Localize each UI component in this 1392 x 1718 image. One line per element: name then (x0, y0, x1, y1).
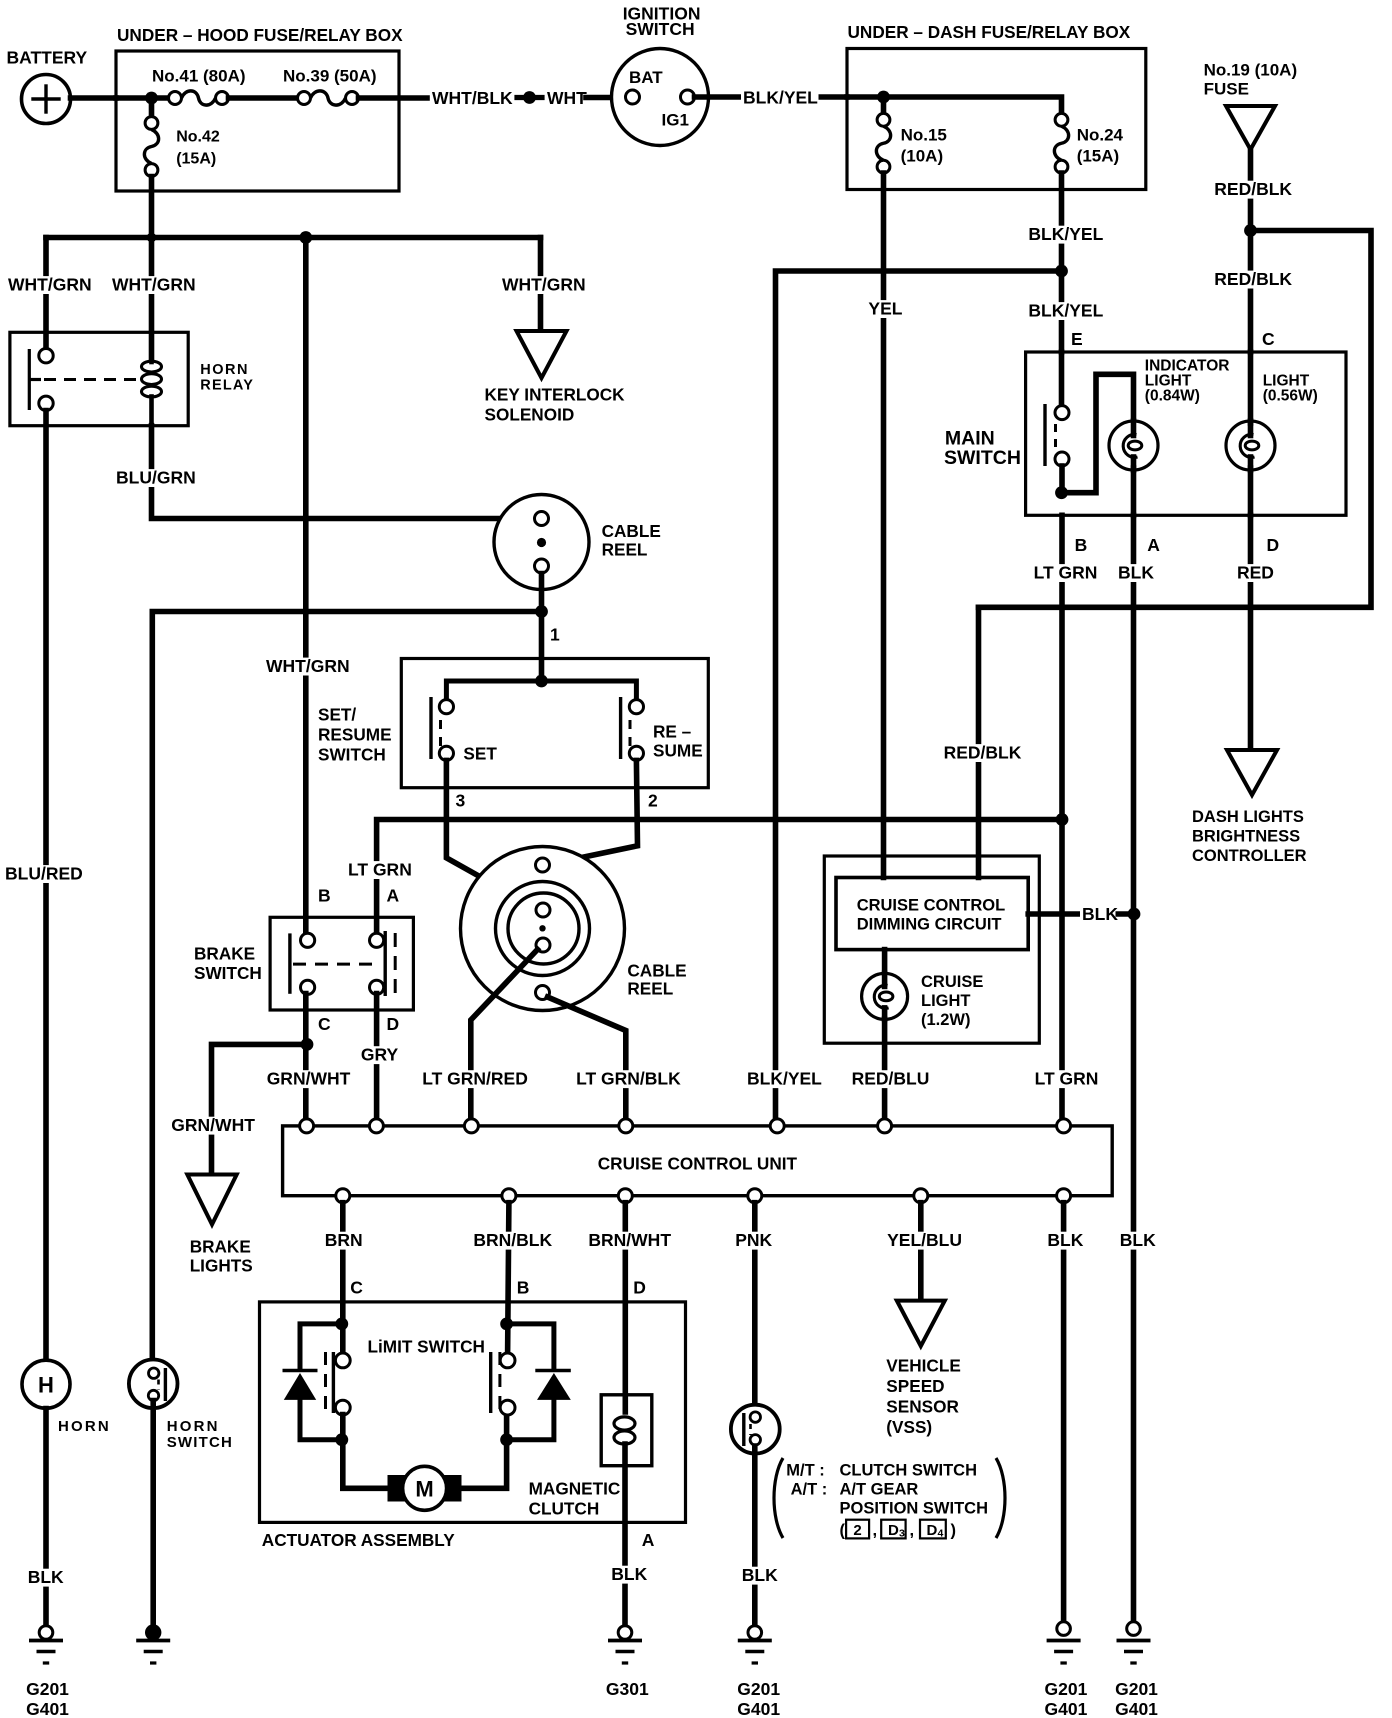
svg-text:G201: G201 (26, 1679, 69, 1699)
wire brake D GRY down (374, 994, 380, 1119)
label BLK clutch (609, 1564, 647, 1584)
svg-text:G401: G401 (1115, 1699, 1158, 1718)
svg-text:3: 3 (456, 791, 466, 811)
label LT GRN brake (346, 860, 413, 880)
terminal BAT (626, 68, 664, 104)
wire WHT to ignition BAT terminal (586, 95, 626, 101)
svg-text:4: 4 (938, 1528, 944, 1540)
magnetic clutch (529, 1395, 652, 1519)
wire E into main switch (1059, 352, 1065, 406)
label RED/BLK upper (1212, 179, 1292, 199)
wire horn down (43, 1409, 49, 1627)
label RED/BLK dimming (942, 743, 1022, 763)
svg-text:SWITCH: SWITCH (194, 963, 262, 983)
wire BRN to actuator (340, 1203, 346, 1354)
svg-text:SWITCH: SWITCH (944, 447, 1021, 469)
label C actuator (350, 1278, 363, 1298)
wire set terminal 3 (446, 760, 536, 908)
svg-text:(10A): (10A) (901, 147, 944, 166)
svg-text:SET: SET (463, 744, 497, 764)
junction limit switch C top (335, 1318, 348, 1331)
label 2 (648, 791, 658, 811)
svg-text:WHT/GRN: WHT/GRN (502, 275, 586, 295)
svg-text:BLK: BLK (28, 1567, 64, 1587)
key interlock solenoid (485, 331, 626, 425)
wire fuse42 to bus (149, 177, 155, 238)
wire dimming BLK (1028, 911, 1134, 917)
svg-text:D: D (1267, 535, 1280, 555)
junction LT GRN branch (1056, 813, 1069, 826)
label GRN/WHT center (265, 1069, 351, 1089)
label C brake (318, 1014, 331, 1034)
svg-text:RESUME: RESUME (318, 725, 392, 745)
main switch box (944, 352, 1346, 515)
wire fuse24 down to main switch E (1059, 173, 1065, 352)
fuse No.15 (10A) (876, 113, 947, 173)
svg-text:LT GRN/BLK: LT GRN/BLK (576, 1069, 681, 1089)
wire cruise light down to CCU (882, 1019, 888, 1119)
wire 1 to set/resume (539, 612, 545, 682)
wire WHT/GRN left drop (43, 238, 49, 349)
svg-text:CRUISE CONTROL: CRUISE CONTROL (857, 897, 1006, 915)
diode D2 (507, 1324, 571, 1440)
svg-text:LIGHT: LIGHT (921, 992, 971, 1010)
svg-text:G401: G401 (737, 1699, 780, 1718)
svg-text:IG1: IG1 (662, 111, 689, 130)
junction limit switch B top (500, 1318, 513, 1331)
indicator light bulb (1109, 358, 1229, 471)
ground clutch switch G201 G401 (737, 1626, 780, 1718)
set/resume switch box (318, 659, 708, 788)
svg-text:(: ( (840, 1522, 846, 1540)
label BLK/YEL upper (1026, 224, 1104, 244)
label BLU/GRN (114, 468, 196, 488)
brake switch linkage dashed (293, 963, 381, 966)
svg-text:CONTROLLER: CONTROLLER (1192, 847, 1307, 865)
label RED/BLK lower (1212, 269, 1292, 289)
brake switch right contact (370, 931, 396, 996)
junction cable reel 1 (535, 605, 548, 618)
svg-text:,: , (873, 1522, 878, 1540)
svg-text:RED/BLK: RED/BLK (944, 743, 1022, 763)
CCU bottom connectors (336, 1189, 1071, 1203)
junction under-dash feed (877, 91, 890, 104)
svg-text:RE –: RE – (653, 722, 692, 742)
label 1 (550, 625, 560, 645)
svg-text:GRN/WHT: GRN/WHT (171, 1115, 255, 1135)
resume switch contacts (621, 697, 703, 761)
svg-text:M/T :: M/T : (786, 1462, 825, 1480)
wire brake C down (303, 994, 309, 1119)
wire horn switch down (150, 1401, 156, 1627)
svg-text:No.41 (80A): No.41 (80A) (152, 67, 246, 86)
svg-text:M: M (415, 1477, 433, 1502)
svg-text:): ) (951, 1522, 957, 1540)
svg-text:,: , (910, 1522, 915, 1540)
svg-text:D: D (387, 1014, 400, 1034)
set switch contacts (431, 697, 497, 764)
label C main switch (1262, 329, 1275, 349)
label BLK clutch switch (740, 1565, 778, 1585)
fuse No.19 (10A) connector (1204, 61, 1298, 150)
svg-text:G301: G301 (606, 1679, 649, 1699)
svg-text:C: C (1262, 329, 1275, 349)
svg-text:SOLENOID: SOLENOID (485, 405, 575, 425)
svg-text:BRN/BLK: BRN/BLK (473, 1230, 552, 1250)
wire BRN/BLK to actuator (508, 1203, 509, 1354)
wire main switch lower contact to junction (1059, 466, 1065, 493)
fuse No.24 (15A) (1054, 113, 1123, 173)
junction BLK/YEL (1055, 265, 1068, 278)
main switch contacts (1045, 404, 1069, 466)
svg-text:LiMIT SWITCH: LiMIT SWITCH (368, 1337, 485, 1357)
wire YEL/BLU to VSS (918, 1203, 924, 1300)
wire between fuse 41 and 39 (229, 95, 298, 101)
svg-text:3: 3 (899, 1528, 905, 1540)
svg-text:WHT/BLK: WHT/BLK (432, 88, 513, 108)
junction set/resume bus (535, 675, 548, 688)
label E main switch (1071, 329, 1083, 349)
brake switch left contact (290, 933, 315, 994)
label BRN (323, 1230, 363, 1250)
svg-text:BAT: BAT (629, 68, 663, 87)
ignition switch (612, 4, 709, 146)
brake switch box (194, 917, 413, 1010)
svg-text:MAGNETIC: MAGNETIC (529, 1479, 621, 1499)
label GRN/WHT left (169, 1115, 255, 1135)
svg-text:LT GRN: LT GRN (1035, 1069, 1099, 1089)
svg-text:GRY: GRY (361, 1045, 399, 1065)
svg-text:No.42: No.42 (176, 129, 220, 146)
label A clutch (642, 1530, 655, 1550)
label WHT/GRN coil (110, 275, 196, 295)
wire indicator bulb down (1131, 468, 1137, 515)
junction RED/BLK (1244, 224, 1257, 237)
dimming circuit outer box (824, 856, 1039, 1043)
wire dimming to cruise light (882, 950, 888, 974)
svg-text:POSITION SWITCH: POSITION SWITCH (840, 1500, 989, 1518)
wire RED/BLK down to dimming circuit (976, 607, 982, 877)
wire C contact to motor (343, 1415, 392, 1489)
svg-text:B: B (318, 886, 331, 906)
cable reel upper (494, 495, 661, 590)
wire A BLK down to ground (1131, 515, 1137, 1626)
label BLK right (1118, 1230, 1156, 1250)
label BLK/YEL lower (1026, 301, 1104, 321)
svg-text:RELAY: RELAY (200, 378, 254, 394)
svg-text:GRN/WHT: GRN/WHT (267, 1069, 351, 1089)
wire WHT/GRN coil drop (149, 238, 155, 360)
clutch switch (731, 1405, 780, 1454)
label 3 (456, 791, 466, 811)
svg-text:BRIGHTNESS: BRIGHTNESS (1192, 828, 1300, 846)
svg-text:SPEED: SPEED (886, 1376, 944, 1396)
svg-text:1: 1 (550, 625, 560, 645)
limit switch B contacts (491, 1352, 515, 1415)
horn relay box (10, 332, 254, 425)
svg-text:BLU/RED: BLU/RED (5, 864, 83, 884)
label PNK (733, 1230, 772, 1250)
label BLU/RED (3, 864, 83, 884)
junction bus WHT/GRN (299, 231, 312, 244)
wire LT GRN long branch (377, 820, 1062, 934)
cruise light bulb (862, 973, 984, 1029)
label LiMIT SWITCH (368, 1337, 485, 1357)
wire resume terminal 2 (550, 760, 638, 864)
wire cable reel down to junction (539, 574, 545, 612)
svg-text:A: A (387, 886, 400, 906)
svg-text:No.24: No.24 (1077, 126, 1124, 145)
label BLK horn (26, 1567, 64, 1587)
junction BLK dimming (1128, 908, 1141, 921)
svg-text:WHT/GRN: WHT/GRN (266, 656, 350, 676)
clutch switch note (774, 1458, 1005, 1540)
svg-text:(15A): (15A) (1077, 147, 1120, 166)
label BLK/YEL ccu (745, 1069, 823, 1089)
svg-text:HORN: HORN (58, 1418, 111, 1435)
svg-text:A: A (1147, 535, 1160, 555)
label B actuator (517, 1278, 530, 1298)
wire fuse42 tap (149, 98, 155, 117)
label LT GRN/BLK (574, 1069, 683, 1089)
svg-text:(0.84W): (0.84W) (1145, 387, 1200, 404)
wire WHT/GRN key interlock drop (538, 238, 544, 330)
horn relay contacts (29, 349, 53, 411)
ground main switch BLK G201 G401 (1115, 1622, 1158, 1718)
svg-text:BLK/YEL: BLK/YEL (1028, 224, 1103, 244)
svg-text:B: B (517, 1278, 530, 1298)
svg-text:BLK: BLK (1082, 904, 1118, 924)
svg-text:(VSS): (VSS) (886, 1417, 932, 1437)
label RED main switch D (1235, 563, 1274, 583)
ground CCU BLK G201 G401 (1045, 1622, 1088, 1718)
label WHT (547, 88, 587, 108)
junction battery feed (145, 92, 158, 105)
svg-text:BRN: BRN (325, 1230, 363, 1250)
svg-text:(1.2W): (1.2W) (921, 1011, 971, 1029)
svg-text:WHT/GRN: WHT/GRN (8, 275, 92, 295)
svg-text:BATTERY: BATTERY (7, 48, 88, 68)
svg-text:REEL: REEL (602, 540, 648, 560)
label WHT/GRN center (264, 656, 350, 676)
svg-text:FUSE: FUSE (1204, 80, 1249, 99)
fuse No.42 (15A) (144, 117, 219, 177)
svg-text:KEY INTERLOCK: KEY INTERLOCK (485, 385, 626, 405)
actuator assembly box (260, 1302, 686, 1550)
motor M (388, 1466, 462, 1510)
label BLK main switch A (1116, 563, 1154, 583)
battery B1 (7, 48, 88, 124)
label RED/BLU (850, 1069, 930, 1089)
label LT GRN/RED (420, 1069, 529, 1089)
diode D1 (283, 1324, 342, 1440)
wire clutch switch down (752, 1446, 758, 1626)
horn relay coil (142, 359, 162, 426)
ground horn G201 G401 (26, 1626, 69, 1718)
fuse No.41 (80A) (152, 67, 246, 106)
light bulb (1226, 372, 1318, 470)
svg-text:BLK/YEL: BLK/YEL (1028, 301, 1103, 321)
svg-text:CABLE: CABLE (627, 961, 686, 981)
label YEL/BLU (885, 1230, 963, 1250)
svg-text:BLK: BLK (1047, 1230, 1083, 1250)
junction fuse42 bus (147, 233, 157, 243)
svg-text:LT GRN: LT GRN (1034, 563, 1098, 583)
svg-text:DASH LIGHTS: DASH LIGHTS (1192, 808, 1304, 826)
svg-text:BLK: BLK (611, 1564, 647, 1584)
svg-text:D: D (633, 1278, 646, 1298)
label BRN/WHT (586, 1230, 671, 1250)
svg-text:BLK/YEL: BLK/YEL (747, 1069, 822, 1089)
svg-text:E: E (1071, 329, 1083, 349)
cruise control unit (283, 1126, 1113, 1196)
svg-text:A: A (642, 1530, 655, 1550)
wire BLU/GRN coil to cable reel (152, 426, 535, 519)
junction limit switch C bottom (335, 1433, 348, 1446)
svg-text:LT GRN: LT GRN (348, 860, 412, 880)
junction main switch B (1055, 486, 1068, 499)
wire D RED down to brightness controller (1248, 515, 1254, 749)
label BLK/YEL ignition (741, 88, 819, 108)
wire BLK to ground (1061, 1203, 1067, 1626)
svg-text:BLK: BLK (1120, 1230, 1156, 1250)
svg-text:A/T :: A/T : (791, 1481, 828, 1499)
svg-text:D: D (888, 1522, 899, 1539)
label LT GRN ccu (1033, 1069, 1100, 1089)
svg-text:CLUTCH: CLUTCH (529, 1499, 600, 1519)
svg-text:BRN/WHT: BRN/WHT (588, 1230, 671, 1250)
junction limit switch B bottom (500, 1433, 513, 1446)
svg-text:RED/BLK: RED/BLK (1214, 179, 1292, 199)
svg-text:UNDER – HOOD FUSE/RELAY BOX: UNDER – HOOD FUSE/RELAY BOX (117, 25, 403, 45)
label BLK dimming (1080, 904, 1118, 924)
wire clutch down (622, 1444, 628, 1626)
svg-text:LT GRN/RED: LT GRN/RED (422, 1069, 528, 1089)
set/resume bus (446, 681, 636, 700)
svg-text:REEL: REEL (627, 979, 673, 999)
svg-text:G201: G201 (1115, 1679, 1158, 1699)
wire WHT/GRN center drop (303, 238, 309, 934)
svg-text:VEHICLE: VEHICLE (886, 1356, 961, 1376)
label B brake (318, 886, 331, 906)
svg-text:D: D (927, 1522, 938, 1539)
junction GRN/WHT (301, 1038, 314, 1051)
svg-text:B: B (1075, 535, 1088, 555)
svg-text:No.39 (50A): No.39 (50A) (283, 67, 377, 86)
svg-text:G201: G201 (737, 1679, 780, 1699)
wire No.19 fuse down (1248, 150, 1254, 227)
dash lights brightness controller (1192, 750, 1307, 865)
label D actuator (633, 1278, 646, 1298)
label BRN/BLK (471, 1230, 552, 1250)
wire B LT GRN down to CCU (1059, 515, 1065, 1119)
distribution bus WHT/GRN (46, 235, 541, 241)
svg-text:DIMMING CIRCUIT: DIMMING CIRCUIT (857, 916, 1002, 934)
svg-text:WHT: WHT (547, 88, 587, 108)
wire light bulb down (1248, 468, 1254, 515)
inline connector WHT/BLK to WHT (517, 91, 542, 104)
svg-text:(15A): (15A) (176, 151, 216, 168)
cruise control dimming circuit box (836, 878, 1028, 950)
svg-text:G201: G201 (1045, 1679, 1088, 1699)
svg-text:2: 2 (648, 791, 658, 811)
svg-text:2: 2 (853, 1522, 861, 1539)
terminal letters main switch (1075, 535, 1280, 555)
svg-text:No.19 (10A): No.19 (10A) (1204, 61, 1298, 80)
svg-text:SENSOR: SENSOR (886, 1397, 959, 1417)
vehicle speed sensor (886, 1301, 961, 1437)
svg-text:LIGHTS: LIGHTS (190, 1256, 253, 1276)
svg-text:BRAKE: BRAKE (194, 944, 255, 964)
wire battery to under-hood box (71, 95, 117, 101)
svg-text:YEL/BLU: YEL/BLU (887, 1230, 962, 1250)
wire BLK/YEL branch to CCU (776, 271, 1062, 1119)
svg-text:CRUISE CONTROL UNIT: CRUISE CONTROL UNIT (598, 1154, 798, 1174)
svg-text:WHT/GRN: WHT/GRN (112, 275, 196, 295)
wire fuse box to WHT/BLK label (359, 95, 428, 101)
under-dash fuse/relay box (847, 22, 1146, 190)
svg-text:C: C (318, 1014, 331, 1034)
horn switch (129, 1360, 233, 1452)
limit switch C contacts (326, 1352, 351, 1415)
svg-text:HORN: HORN (167, 1418, 220, 1435)
svg-text:ACTUATOR ASSEMBLY: ACTUATOR ASSEMBLY (262, 1530, 455, 1550)
svg-text:CABLE: CABLE (602, 521, 661, 541)
svg-text:BLK: BLK (742, 1565, 778, 1585)
wire reel to LT GRN/RED (471, 950, 538, 1119)
svg-text:RED/BLK: RED/BLK (1214, 269, 1292, 289)
cable reel lower (461, 847, 687, 1011)
ground clutch G301 (606, 1626, 649, 1699)
svg-text:(0.56W): (0.56W) (1263, 387, 1318, 404)
svg-text:SWITCH: SWITCH (318, 745, 386, 765)
fuse No.39 (50A) (283, 67, 377, 106)
wire C into light bulb (1248, 352, 1254, 423)
label WHT/GRN key interlock (500, 275, 586, 295)
svg-text:A/T GEAR: A/T GEAR (840, 1481, 919, 1499)
label LT GRN main switch (1032, 563, 1099, 583)
svg-text:BRAKE: BRAKE (190, 1237, 251, 1257)
wire battery feed inside box (116, 95, 169, 101)
horn relay linkage dashed (44, 378, 139, 381)
wire reel to LT GRN/BLK (548, 997, 626, 1119)
wire inside under-dash box (847, 97, 1062, 114)
svg-text:HORN: HORN (200, 362, 249, 378)
svg-text:H: H (38, 1373, 54, 1398)
svg-text:SWITCH: SWITCH (626, 19, 695, 39)
label YEL (866, 299, 902, 319)
wire junction to fuse 15 (881, 97, 887, 114)
wire fuse15 down to dimming circuit (881, 173, 887, 878)
svg-text:BLK: BLK (1118, 563, 1154, 583)
label D brake (387, 1014, 400, 1034)
brake lights connector (187, 1175, 252, 1276)
svg-text:CRUISE: CRUISE (921, 973, 983, 991)
wire RED/BLK down to main switch C (1248, 231, 1254, 353)
wire GRN/WHT to brake lights (212, 1044, 308, 1172)
under-hood fuse/relay box (116, 25, 403, 191)
svg-text:RED: RED (1237, 563, 1274, 583)
wire to indicator bulb (1062, 374, 1134, 492)
svg-text:CLUTCH SWITCH: CLUTCH SWITCH (840, 1462, 977, 1480)
wire PNK to clutch switch (752, 1203, 758, 1412)
wire RED/BLK branch right and down (979, 231, 1372, 608)
svg-text:UNDER – DASH FUSE/RELAY BOX: UNDER – DASH FUSE/RELAY BOX (848, 22, 1131, 42)
ground horn switch (136, 1624, 170, 1663)
svg-text:SET/: SET/ (318, 705, 356, 725)
wire motor to B side (459, 1415, 506, 1489)
svg-text:No.15: No.15 (901, 126, 947, 145)
